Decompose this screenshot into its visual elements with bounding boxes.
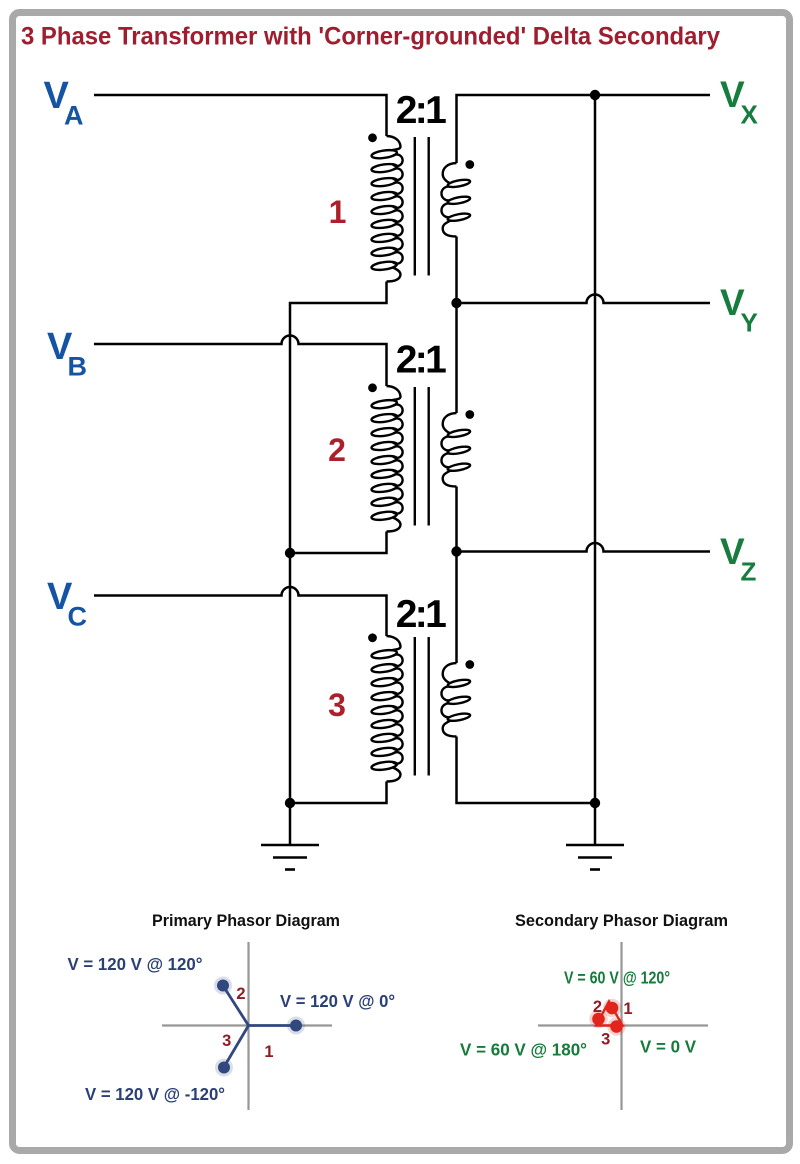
svg-text:Secondary Phasor Diagram: Secondary Phasor Diagram [515,912,728,930]
svg-text:B: B [68,352,88,382]
svg-text:A: A [64,101,84,131]
svg-text:2:1: 2:1 [396,593,446,636]
svg-text:3: 3 [222,1032,231,1050]
svg-text:X: X [741,100,759,130]
svg-text:1: 1 [264,1043,273,1061]
svg-text:V = 60 V @ 120°: V = 60 V @ 120° [564,968,670,988]
svg-text:V = 0 V: V = 0 V [640,1037,696,1057]
svg-text:2: 2 [328,432,346,468]
svg-text:V = 60 V @ 180°: V = 60 V @ 180° [460,1040,587,1060]
svg-text:Y: Y [741,308,758,338]
svg-text:Primary Phasor Diagram: Primary Phasor Diagram [152,912,340,930]
svg-text:3 Phase Transformer with 'Corn: 3 Phase Transformer with 'Corner-grounde… [21,23,720,51]
svg-text:2:1: 2:1 [396,339,446,382]
svg-text:2: 2 [593,998,602,1016]
svg-text:C: C [68,602,88,632]
svg-text:1: 1 [623,1000,632,1018]
svg-text:3: 3 [601,1031,610,1049]
svg-text:2:1: 2:1 [396,89,446,132]
svg-text:V = 120 V @ 0°: V = 120 V @ 0° [280,991,395,1011]
svg-text:1: 1 [329,194,347,230]
svg-text:Z: Z [741,557,757,587]
svg-text:V = 120 V @ -120°: V = 120 V @ -120° [85,1084,225,1104]
svg-text:3: 3 [328,687,346,723]
svg-text:V = 120 V @ 120°: V = 120 V @ 120° [68,954,203,974]
svg-text:2: 2 [236,985,245,1003]
